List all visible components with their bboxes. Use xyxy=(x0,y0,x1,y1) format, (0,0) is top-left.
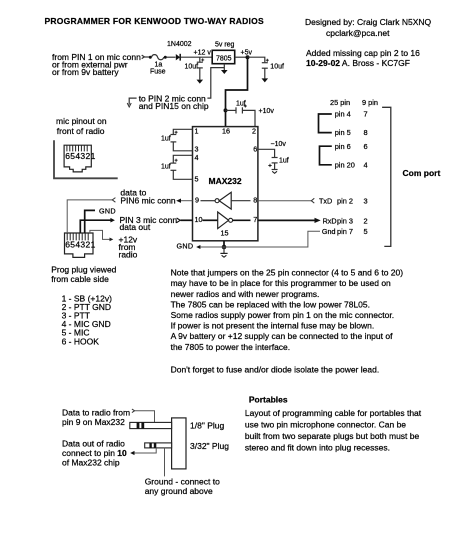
svg-text:and PIN15 on chip: and PIN15 on chip xyxy=(139,101,209,111)
ground (7805) xyxy=(221,70,228,74)
svg-text:RxD: RxD xyxy=(323,216,337,225)
capacitor C3 1uf (pin16 to pin2) xyxy=(226,109,237,111)
wire plug pin 6 to data-to label xyxy=(67,200,112,233)
svg-text:Some radios supply power from: Some radios supply power from pin 1 on t… xyxy=(171,310,394,320)
svg-text:PROGRAMMER FOR KENWOOD TWO-WAY: PROGRAMMER FOR KENWOOD TWO-WAY RADIOS xyxy=(45,16,264,26)
svg-text:PIN6 mic conn: PIN6 mic conn xyxy=(120,195,176,205)
svg-text:5: 5 xyxy=(364,227,368,236)
svg-text:7: 7 xyxy=(364,110,368,119)
jumper 4 to 5 xyxy=(319,114,332,133)
svg-text:6: 6 xyxy=(253,145,257,154)
node gnd junction xyxy=(222,245,227,250)
svg-text:Layout of programming cable fo: Layout of programming cable for portable… xyxy=(245,408,422,418)
inverter A (pin 9 to pin 8) xyxy=(201,200,216,202)
svg-text:radio: radio xyxy=(119,250,138,260)
svg-text:10uf: 10uf xyxy=(185,64,199,71)
svg-text:4: 4 xyxy=(195,153,199,162)
prog plug pins xyxy=(67,233,88,240)
svg-text:9: 9 xyxy=(195,196,199,205)
svg-text:8: 8 xyxy=(364,128,368,137)
svg-text:data out: data out xyxy=(120,222,151,232)
svg-text:6: 6 xyxy=(364,142,368,151)
svg-text:use two pin microphone connect: use two pin microphone connector. Can be xyxy=(245,420,406,430)
svg-text:1uf: 1uf xyxy=(279,158,289,165)
wire pin 9 to mic label xyxy=(178,200,193,202)
svg-text:4: 4 xyxy=(364,160,368,169)
inverter B (pin 10 to pin 7) xyxy=(203,219,218,221)
wire gnd node to com port Gnd xyxy=(224,231,320,247)
svg-text:16: 16 xyxy=(222,127,230,136)
svg-text:Gnd: Gnd xyxy=(322,227,336,236)
wire input to fuse xyxy=(144,56,149,58)
svg-text:10-29-02 A. Bross - KC7GF: 10-29-02 A. Bross - KC7GF xyxy=(306,58,410,68)
svg-text:Note that jumpers on the 25 pi: Note that jumpers on the 25 pin connecto… xyxy=(171,268,404,278)
svg-text:2: 2 xyxy=(252,127,256,136)
svg-text:1: 1 xyxy=(195,127,199,136)
svg-text:5: 5 xyxy=(195,175,199,184)
svg-text:2: 2 xyxy=(364,216,368,225)
svg-text:newer radios and with newer pr: newer radios and with newer programs. xyxy=(171,289,320,299)
svg-text:may have to be in place for th: may have to be in place for this program… xyxy=(171,278,391,288)
svg-text:TxD: TxD xyxy=(319,196,332,205)
wire 3/32 plug to data out label xyxy=(132,448,156,453)
node junction pin16/cap xyxy=(224,108,228,112)
input open arrow xyxy=(142,55,145,59)
svg-text:cpclark@pca.net: cpclark@pca.net xyxy=(326,28,390,38)
ground (C2) xyxy=(262,78,269,82)
wire plug pin 1 to +12v label xyxy=(90,230,110,239)
plug P2 3/32 inch shaft xyxy=(145,443,172,448)
wire plug pin 3 to PIN3 label xyxy=(80,220,110,233)
svg-text:1/8" Plug: 1/8" Plug xyxy=(190,421,224,431)
wire 7805 output to +5v node xyxy=(235,56,248,58)
wire 7805 gnd to PIN2-mic label xyxy=(207,68,224,99)
svg-text:6 - HOOK: 6 - HOOK xyxy=(62,336,100,346)
svg-text:stereo and fit down into plug: stereo and fit down into plug recesses. xyxy=(245,443,390,453)
svg-text:any ground above: any ground above xyxy=(145,486,213,496)
svg-text:front of radio: front of radio xyxy=(57,126,105,136)
svg-text:GND: GND xyxy=(99,206,116,215)
capacitor C1 10uf xyxy=(199,57,201,62)
svg-text:7805: 7805 xyxy=(216,56,232,63)
svg-text:of Max232 chip: of Max232 chip xyxy=(62,458,120,468)
RxD arrow xyxy=(315,218,321,223)
wire gnd node to GND label xyxy=(200,246,225,248)
svg-text:mic pinout on: mic pinout on xyxy=(56,116,107,126)
corner bracket under mic connector xyxy=(54,140,118,178)
svg-text:Data out of radio: Data out of radio xyxy=(62,439,125,449)
wire +5v down to pin 16 xyxy=(226,57,248,126)
svg-text:pin 7: pin 7 xyxy=(337,227,353,236)
svg-text:654321: 654321 xyxy=(65,239,95,249)
svg-text:10uf: 10uf xyxy=(270,64,284,71)
capacitor C6 1uf (pin 6 to gnd) xyxy=(258,149,275,157)
ground (C6) xyxy=(272,169,278,171)
svg-text:pin 5: pin 5 xyxy=(335,128,351,137)
wire +5v to C2 xyxy=(248,57,265,62)
jumper 6 to 20 xyxy=(320,146,332,165)
ground (pin 15) xyxy=(223,247,225,253)
wire pin 8 to TxD xyxy=(258,200,311,202)
svg-text:A 9v battery or +12 supply can: A 9v battery or +12 supply can be connec… xyxy=(171,331,393,341)
svg-text:+5v: +5v xyxy=(241,50,253,57)
svg-text:pin 4: pin 4 xyxy=(335,110,351,119)
ground (C1) xyxy=(197,80,204,84)
svg-text:pin 9 on Max232: pin 9 on Max232 xyxy=(62,417,125,427)
svg-text:3: 3 xyxy=(364,196,368,205)
capacitor C4 1uf (pins 1-3) xyxy=(173,129,192,134)
svg-text:built from two separate plugs: built from two separate plugs but both m… xyxy=(245,431,420,441)
wire plug pin 2 to GND label xyxy=(85,210,95,233)
op-amp U1 MAX232 body xyxy=(193,127,258,241)
prog plug connector J2 (cable side) xyxy=(65,233,94,257)
fuse F1 1a xyxy=(149,56,152,59)
svg-text:1uf: 1uf xyxy=(161,164,171,171)
gnd pointer arrow at label xyxy=(129,98,136,105)
svg-text:25 pin: 25 pin xyxy=(330,98,350,107)
svg-text:5v reg: 5v reg xyxy=(215,42,235,49)
svg-text:from cable side: from cable side xyxy=(51,274,109,284)
capacitor C5 1uf (pins 4-5) xyxy=(173,155,192,163)
svg-text:3: 3 xyxy=(195,145,199,154)
svg-text:If power is not present the in: If power is not present the internal fus… xyxy=(171,321,375,331)
wire fuse to diode xyxy=(167,56,176,58)
svg-text:pin 20: pin 20 xyxy=(335,160,355,169)
svg-text:1a: 1a xyxy=(155,62,163,69)
svg-text:8: 8 xyxy=(253,196,257,205)
svg-text:GND: GND xyxy=(177,242,194,251)
svg-text:1uf: 1uf xyxy=(161,136,171,143)
svg-text:connect to pin 10: connect to pin 10 xyxy=(62,448,127,458)
svg-text:654321: 654321 xyxy=(65,151,95,161)
svg-text:1N4002: 1N4002 xyxy=(167,41,192,48)
svg-text:Fuse: Fuse xyxy=(150,69,166,76)
com port bracket xyxy=(382,107,391,246)
wire C3 to pin 2 xyxy=(242,110,255,126)
mic connector J1 (front view) xyxy=(64,145,91,172)
svg-text:3/32" Plug: 3/32" Plug xyxy=(190,441,229,451)
svg-text:Data to radio from: Data to radio from xyxy=(62,408,130,418)
wire diode to 7805 xyxy=(181,56,213,58)
wire pin 7 to RxD xyxy=(258,219,315,221)
svg-text:The 7805 can be replaced with: The 7805 can be replaced with the low po… xyxy=(171,299,370,309)
svg-text:pin 2: pin 2 xyxy=(337,196,353,205)
svg-text:pin 6: pin 6 xyxy=(335,142,351,151)
svg-text:9 pin: 9 pin xyxy=(362,98,378,107)
svg-text:pin 3: pin 3 xyxy=(337,216,353,225)
mic connector pins xyxy=(67,145,87,151)
plug P1 1/8 inch body xyxy=(172,418,186,469)
svg-text:−10v: −10v xyxy=(271,141,287,148)
capacitor C2 10uf xyxy=(266,59,269,62)
svg-text:or from 9v battery: or from 9v battery xyxy=(52,67,119,77)
wire pin 15 to gnd node xyxy=(223,241,225,247)
svg-text:Don't forget to fuse and/or di: Don't forget to fuse and/or diode isolat… xyxy=(171,364,380,374)
svg-text:Designed by: Craig Clark N5XNQ: Designed by: Craig Clark N5XNQ xyxy=(305,17,432,27)
svg-text:Ground - connect to: Ground - connect to xyxy=(145,477,220,487)
svg-text:the 7805 to power the interfac: the 7805 to power the interface. xyxy=(171,342,291,352)
svg-text:+12 v: +12 v xyxy=(194,50,212,57)
svg-text:10: 10 xyxy=(195,215,203,224)
svg-text:Com port: Com port xyxy=(403,168,441,178)
TxD arrow xyxy=(311,198,314,203)
node +5v xyxy=(246,55,250,59)
wire to 1/8 plug xyxy=(132,409,135,413)
svg-text:+10v: +10v xyxy=(259,108,275,115)
wire pin 10 from mic label xyxy=(181,219,193,221)
svg-text:MAX232: MAX232 xyxy=(209,176,242,186)
ground wire from 3/32 plug xyxy=(164,448,166,477)
plug P1 shaft xyxy=(130,422,172,428)
svg-text:Added missing cap pin 2 to 16: Added missing cap pin 2 to 16 xyxy=(306,48,420,58)
svg-text:7: 7 xyxy=(253,215,257,224)
7805 ground pin wire xyxy=(223,64,225,70)
svg-text:Portables: Portables xyxy=(249,394,288,404)
svg-text:15: 15 xyxy=(221,229,229,238)
